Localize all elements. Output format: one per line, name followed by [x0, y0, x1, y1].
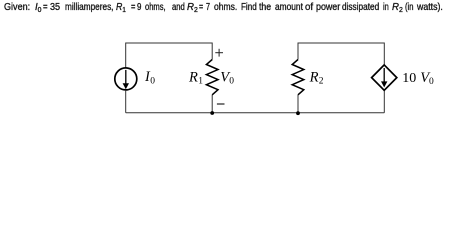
svg-text:2: 2	[319, 77, 324, 87]
svg-text:10: 10	[402, 71, 416, 86]
svg-text:R: R	[188, 69, 198, 85]
svg-text:0: 0	[229, 77, 234, 87]
svg-text:0: 0	[429, 77, 434, 87]
svg-text:1: 1	[198, 77, 203, 87]
svg-text:0: 0	[150, 76, 155, 86]
svg-text:R: R	[309, 69, 319, 85]
